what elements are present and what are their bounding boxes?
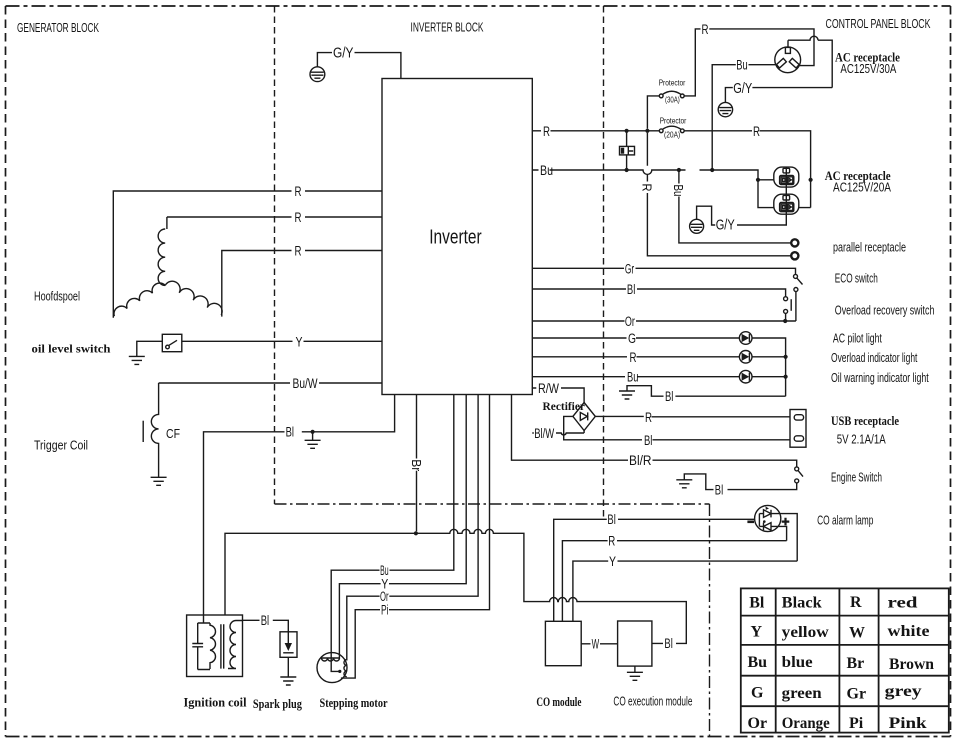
svg-text:R: R [640, 184, 654, 192]
divider horizontal dash-dot [275, 503, 710, 505]
svg-text:Protector: Protector [659, 78, 686, 88]
wire Or inverter to stepping motor [347, 395, 478, 661]
svg-text:Bl: Bl [607, 512, 615, 527]
protector (20A) [659, 129, 663, 133]
CO execution module [618, 621, 652, 666]
svg-text:green: green [782, 685, 822, 702]
svg-text:(20A): (20A) [664, 130, 680, 139]
svg-text:oil level switch: oil level switch [32, 342, 111, 356]
parallel receptacle ring 2 [791, 252, 798, 259]
USB receptacle [790, 410, 806, 448]
svg-text:G/Y: G/Y [716, 218, 735, 234]
ECO switch [794, 274, 798, 278]
wire W CO module to execution module [581, 643, 617, 645]
node Or-switch junction [783, 319, 787, 323]
svg-text:Engine Switch: Engine Switch [831, 470, 882, 484]
wire R rectifier plus to USB [595, 415, 790, 417]
svg-text:R: R [608, 534, 615, 549]
wire R protector20A to 20A receptacle [684, 131, 810, 180]
svg-text:R: R [295, 210, 302, 225]
wire 20A center ground pin [697, 167, 787, 225]
svg-text:USB receptacle: USB receptacle [831, 414, 899, 428]
wire R inverter to overload indicator light [532, 356, 785, 358]
wire Bu inverter to stepping motor [331, 395, 454, 672]
wire R2 from winding top [167, 216, 382, 218]
svg-text:R: R [753, 124, 760, 139]
svg-text:Bu: Bu [540, 163, 553, 178]
wire Pi inverter to stepping motor [341, 395, 490, 679]
wire Bl/R inverter to engine switch [512, 395, 797, 467]
svg-text:W: W [592, 637, 600, 652]
ground (engine switch) [676, 480, 692, 488]
svg-text:G: G [628, 331, 636, 346]
node Bu-parallel junction [677, 168, 681, 172]
wire R protector30A to 30A receptacle [684, 29, 814, 96]
svg-text:ECO switch: ECO switch [835, 271, 878, 285]
parallel receptacle ring 1 [791, 239, 798, 246]
wire Bl engine switch to ground [684, 474, 796, 490]
svg-text:Protector: Protector [660, 115, 687, 125]
svg-text:Y: Y [609, 554, 616, 569]
capacitor C1 (ignition) [192, 644, 203, 647]
CO alarm lamp [755, 505, 781, 531]
wire protector30A left to R junction [647, 96, 659, 129]
ground (spark plug) [280, 677, 296, 685]
CO alarm lamp minus terminal [747, 520, 754, 523]
svg-text:(30A): (30A) [665, 96, 680, 105]
svg-text:Bu/W: Bu/W [293, 376, 318, 391]
wire R inverter right to protectors [532, 130, 659, 132]
svg-text:R: R [543, 124, 550, 139]
svg-text:Pink: Pink [889, 715, 927, 732]
wire G/Y 30A ground [725, 36, 832, 102]
wire R/W inverter to rectifier [532, 388, 584, 403]
node 20A right junction [809, 178, 813, 182]
protective earth circle (inverter G/Y) [310, 67, 325, 82]
wire Y oil switch to inverter [182, 340, 382, 342]
svg-text:Bl: Bl [627, 282, 635, 297]
divider vertical dash-dot [709, 504, 711, 737]
svg-text:Br: Br [409, 459, 423, 471]
AC receptacle 30A body [775, 47, 801, 73]
ground (lamp return) [619, 391, 635, 399]
svg-text:G/Y: G/Y [733, 81, 752, 97]
node Bl ground junction [311, 430, 315, 434]
inverter box U1 [382, 79, 532, 395]
wire G inverter to AC pilot light [532, 338, 785, 396]
svg-text:AC125V/20A: AC125V/20A [833, 180, 892, 194]
CO alarm lamp plus terminal [782, 518, 790, 526]
wire Y CO module to lamp [573, 561, 797, 621]
generator winding Hoofdspoel : vertical coil [158, 217, 167, 285]
spark plug P1 [280, 632, 297, 658]
ground (trigger coil) [151, 477, 167, 485]
page border frame [6, 5, 951, 7]
svg-text:CO module: CO module [536, 694, 581, 709]
oil level switch [162, 334, 182, 351]
rectifier D1 [573, 403, 595, 431]
svg-text:Brown: Brown [889, 656, 934, 673]
svg-text:grey: grey [885, 683, 922, 700]
svg-text:blue: blue [782, 654, 813, 671]
svg-text:Pi: Pi [849, 715, 864, 732]
wire R CO module to lamp [562, 541, 786, 622]
svg-text:Trigger Coil: Trigger Coil [34, 439, 88, 453]
wire Gr inverter to ECO switch [532, 268, 795, 274]
wire Bl ignition to spark plug [236, 620, 288, 632]
svg-text:R/W: R/W [538, 381, 559, 396]
svg-text:Bl: Bl [664, 636, 672, 651]
wire Br inverter to harness [416, 395, 418, 532]
protective earth circle (30A G/Y) [718, 102, 732, 116]
ignition secondary coil [228, 621, 236, 669]
AC receptacle 20A lower socket [774, 194, 799, 214]
node lamp rail junction 1 [784, 355, 788, 359]
svg-text:Inverter: Inverter [429, 227, 482, 249]
divider inverter/control block [603, 6, 605, 518]
svg-text:yellow: yellow [782, 624, 829, 641]
svg-text:AC pilot light: AC pilot light [833, 332, 882, 346]
wire G/Y inverter top to earth [317, 53, 401, 79]
svg-text:Bl: Bl [715, 483, 723, 498]
generator winding : right diagonal coil [165, 281, 222, 315]
node R-protector junction 1 [625, 129, 629, 133]
svg-text:Overload recovery switch: Overload recovery switch [835, 303, 935, 317]
trigger coil core bar [142, 421, 144, 442]
svg-text:Bl/R: Bl/R [629, 453, 652, 468]
svg-text:Bu: Bu [748, 654, 768, 671]
svg-text:Ignition coil: Ignition coil [184, 695, 247, 710]
svg-text:G: G [751, 685, 764, 702]
svg-text:Or: Or [748, 715, 768, 732]
wire Bu up to 30A receptacle [712, 65, 775, 170]
svg-text:red: red [888, 595, 918, 612]
svg-text:R: R [295, 244, 302, 259]
wire Bu inverter to oil warning light [532, 376, 785, 378]
wire Or inverter to switch common [532, 320, 796, 322]
svg-text:Bl/W: Bl/W [534, 426, 554, 441]
svg-text:white: white [888, 623, 930, 640]
svg-text:R: R [850, 594, 862, 611]
wire harness y533 ignition to CO module [225, 529, 686, 643]
node lamp rail junction 2 [784, 375, 788, 379]
trigger coil CF [151, 383, 158, 477]
protector (30A) [659, 94, 663, 98]
svg-text:R: R [702, 22, 709, 37]
node 20A left junction [756, 178, 760, 182]
ground (CO execution module) [627, 666, 643, 680]
wire Bu/W trigger coil to inverter [159, 382, 382, 384]
wire Bl rectifier minus to USB [564, 416, 790, 439]
engine switch [795, 467, 799, 471]
svg-text:Black: Black [782, 595, 822, 612]
node stepping motor Bu [338, 670, 341, 673]
svg-text:Bl: Bl [261, 613, 269, 628]
wire Bl inverter to overload recovery switch [532, 289, 785, 297]
wire parallel 1 to Bu [679, 172, 791, 243]
node Br junction [414, 531, 418, 535]
wire Bl inverter to ignition coil [204, 395, 395, 624]
svg-text:INVERTER BLOCK: INVERTER BLOCK [411, 20, 484, 35]
svg-text:Gr: Gr [625, 261, 635, 276]
svg-text:Oil warning indicator light: Oil warning indicator light [831, 371, 929, 385]
svg-text:R: R [295, 184, 302, 199]
svg-text:Pi: Pi [381, 603, 389, 618]
node R-protector junction 2 [645, 129, 649, 133]
color table [741, 588, 949, 732]
svg-text:Overload indicator light: Overload indicator light [831, 351, 918, 365]
ground (oil level switch) [129, 356, 145, 364]
svg-text:CO execution module: CO execution module [613, 695, 692, 709]
svg-text:Orange: Orange [782, 715, 830, 732]
svg-text:CONTROL PANEL BLOCK: CONTROL PANEL BLOCK [826, 16, 931, 31]
divider generator/inverter block [274, 6, 276, 504]
svg-text:5V 2.1A/1A: 5V 2.1A/1A [837, 433, 887, 447]
svg-text:Spark plug: Spark plug [253, 696, 302, 711]
svg-text:Bl: Bl [665, 389, 673, 404]
fuse box W on R-Bu link [626, 131, 628, 170]
wire oil switch to ground [137, 341, 163, 356]
svg-text:Or: Or [625, 314, 635, 329]
wire 20A right pins [799, 180, 811, 208]
node fuse-Bu junction [625, 168, 629, 172]
stepping motor M1 [317, 653, 347, 683]
CO module [545, 621, 581, 665]
svg-text:Bl: Bl [644, 433, 652, 448]
ignition core [221, 624, 224, 668]
overload indicator light [739, 351, 752, 364]
wire Bl CO module to lamp [554, 519, 755, 621]
svg-text:AC125V/30A: AC125V/30A [840, 62, 897, 76]
svg-text:Br: Br [847, 655, 865, 672]
svg-text:Y: Y [296, 334, 303, 349]
svg-text:Hoofdspoel: Hoofdspoel [34, 289, 80, 303]
oil warning indicator light [739, 370, 752, 383]
wire parallel 2 to R [647, 133, 790, 256]
svg-text:Y: Y [751, 624, 763, 641]
AC pilot light [739, 332, 752, 345]
wire Bl/W inverter to rectifier [532, 431, 584, 435]
svg-text:W: W [849, 625, 865, 642]
svg-text:Bl: Bl [749, 595, 765, 612]
svg-text:Bu: Bu [671, 185, 685, 197]
wire R1 from winding left leg [113, 191, 382, 318]
svg-text:GENERATOR BLOCK: GENERATOR BLOCK [17, 20, 99, 35]
ground (Bl wire) [305, 432, 321, 449]
svg-text:Bu: Bu [627, 370, 638, 385]
svg-text:R: R [645, 410, 652, 425]
generator winding : left diagonal coil [114, 283, 165, 316]
svg-text:R: R [630, 350, 637, 365]
svg-text:Rectifier: Rectifier [543, 399, 586, 413]
svg-text:Bl: Bl [286, 425, 294, 440]
AC receptacle 20A upper socket [774, 167, 799, 187]
wire Y inverter to stepping motor [339, 395, 466, 659]
wire Bl lamp return to ground [627, 386, 786, 397]
ignition primary coil [210, 623, 216, 669]
svg-text:parallel receptacle: parallel receptacle [833, 240, 906, 254]
protective earth circle (20A G/Y) [690, 219, 704, 233]
svg-text:CO alarm lamp: CO alarm lamp [817, 514, 873, 528]
svg-text:CF: CF [166, 427, 180, 441]
wire R3 from winding right leg [222, 251, 382, 317]
node Bu-30A junction [710, 168, 714, 172]
wire Bu inverter right to 20A receptacle [532, 170, 774, 208]
overload recovery switch [784, 297, 788, 301]
svg-text:Bu: Bu [736, 58, 747, 73]
svg-text:Gr: Gr [847, 686, 867, 703]
svg-text:Stepping motor: Stepping motor [320, 695, 388, 710]
svg-text:G/Y: G/Y [333, 46, 354, 62]
ignition coil T1 [187, 615, 243, 677]
